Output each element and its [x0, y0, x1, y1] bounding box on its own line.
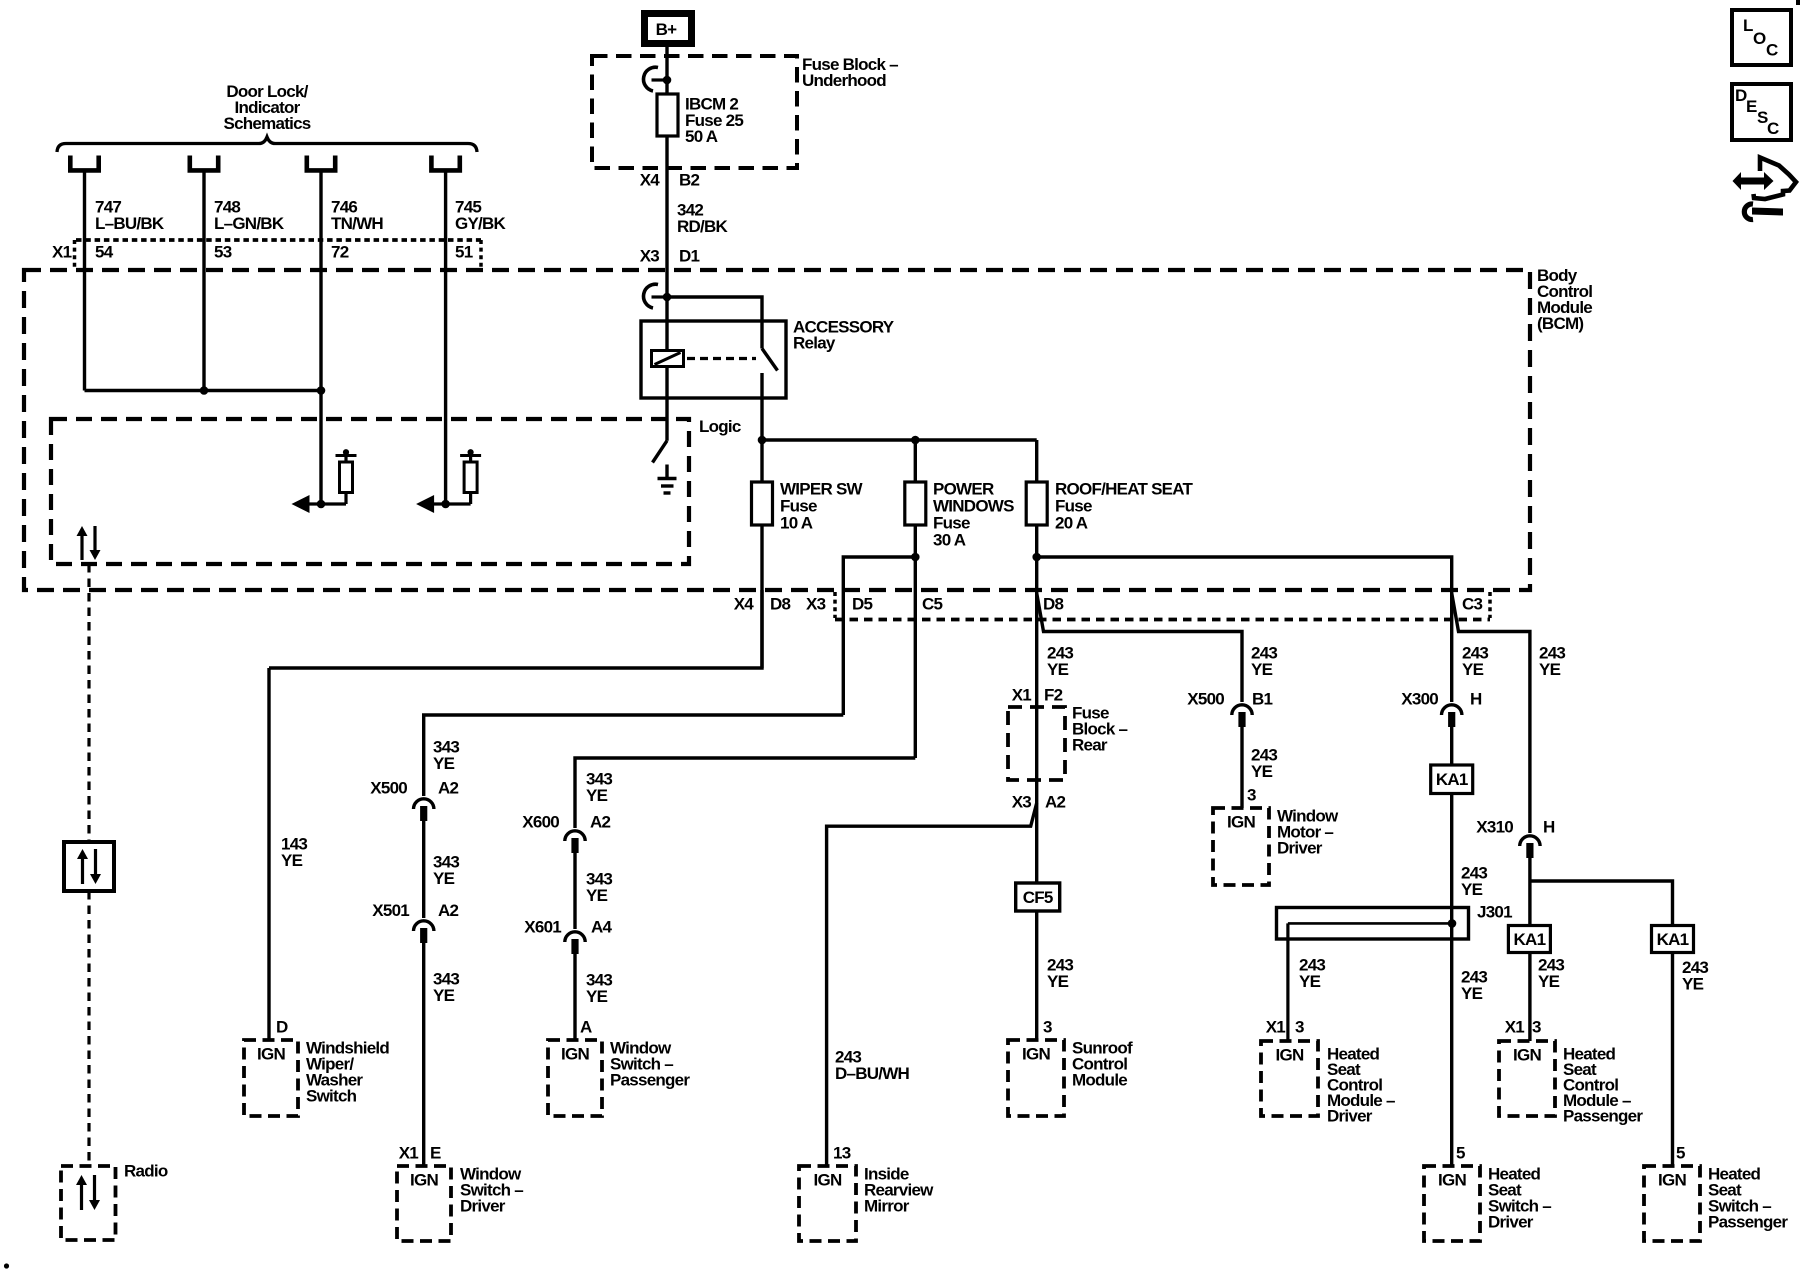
wire BCM pin D1 to relay coil [665, 270, 668, 351]
Heated Seat Switch - Passenger connector box [1644, 1166, 1700, 1241]
Sunroof Control Module connector box [1008, 1040, 1064, 1116]
wire KA1 to heated seat switch passenger [1671, 953, 1674, 1167]
LOC reference box [1732, 10, 1791, 65]
svg-text:YE: YE [1461, 880, 1483, 899]
wire 243 YE to window motor [1240, 727, 1243, 808]
connector X1 right bracket [479, 240, 483, 268]
svg-text:3: 3 [1532, 1018, 1541, 1037]
svg-text:B2: B2 [679, 171, 700, 190]
wire 747 L-BU/BK [83, 172, 86, 391]
svg-text:E: E [1746, 97, 1757, 116]
connector KA1 heated seat control passenger [1508, 926, 1550, 953]
Heated Seat Switch - Driver connector box [1424, 1166, 1480, 1241]
svg-text:X3: X3 [1012, 793, 1032, 812]
wire 746 TN/WH [319, 172, 322, 504]
svg-text:Radio: Radio [124, 1162, 168, 1181]
wire pin D8 to windshield wiper switch [269, 590, 762, 668]
Body Control Module (BCM) dashed box [24, 270, 1530, 590]
wire jog pin D8 to window motor driver [1037, 593, 1242, 702]
svg-text:13: 13 [833, 1144, 851, 1163]
svg-text:72: 72 [331, 243, 349, 262]
svg-text:B+: B+ [656, 20, 678, 39]
svg-text:E: E [430, 1144, 441, 1163]
svg-text:X500: X500 [370, 779, 407, 798]
svg-text:Logic: Logic [699, 417, 741, 436]
svg-text:IGN: IGN [257, 1045, 285, 1064]
svg-text:IGN: IGN [1276, 1046, 1304, 1065]
svg-text:X1: X1 [1012, 686, 1032, 705]
svg-text:C3: C3 [1462, 595, 1483, 614]
svg-text:X3: X3 [640, 247, 660, 266]
connector row dotted line [835, 618, 1490, 622]
wire relay coil to logic switch [665, 367, 668, 441]
door lock indicator 745 [441, 500, 450, 509]
Window Motor - Driver connector box [1213, 808, 1269, 885]
page corner mark top right [1796, 0, 1800, 5]
svg-text:YE: YE [1539, 660, 1561, 679]
svg-text:X1: X1 [399, 1144, 419, 1163]
svg-text:YE: YE [433, 869, 455, 888]
svg-text:KA1: KA1 [1514, 930, 1546, 949]
svg-text:YE: YE [1251, 762, 1273, 781]
svg-text:CF5: CF5 [1023, 888, 1053, 907]
svg-text:X1: X1 [52, 243, 72, 262]
svg-text:L: L [1743, 16, 1753, 35]
junction wire 54/53 to 72 [85, 389, 322, 392]
relay actuation dashed link [687, 357, 756, 360]
svg-text:Relay: Relay [793, 334, 836, 353]
svg-text:5: 5 [1456, 1144, 1465, 1163]
wire branch to pin C3 [1037, 557, 1452, 590]
svg-text:YE: YE [586, 786, 608, 805]
junction dot 72 [317, 386, 326, 395]
navigation arrow icon [1733, 172, 1774, 190]
svg-text:3: 3 [1247, 786, 1256, 805]
wire 745 GY/BK [444, 172, 447, 504]
wire 343 YE segment [422, 821, 425, 918]
wire fuse block rear to CF5 [1035, 707, 1038, 883]
svg-text:IGN: IGN [1658, 1171, 1686, 1190]
svg-text:RD/BK: RD/BK [677, 217, 729, 236]
svg-text:TN/WH: TN/WH [331, 214, 383, 233]
wire 342 RD/BK fuse to BCM pin D1 [665, 136, 668, 270]
svg-text:Rear: Rear [1072, 736, 1108, 755]
wire J301 to heated seat control module driver [1286, 923, 1289, 1041]
svg-text:F2: F2 [1044, 686, 1063, 705]
svg-text:Passenger: Passenger [1708, 1213, 1788, 1232]
connector KA1 heated seat driver feed [1431, 765, 1473, 794]
svg-text:Switch: Switch [306, 1087, 357, 1106]
svg-text:A: A [580, 1018, 592, 1037]
page corner mark bottom left [4, 1263, 9, 1268]
relay contact blade [762, 349, 778, 371]
svg-text:L–BU/BK: L–BU/BK [95, 214, 165, 233]
svg-text:IGN: IGN [1438, 1171, 1466, 1190]
svg-text:IGN: IGN [1513, 1046, 1541, 1065]
svg-text:YE: YE [1682, 975, 1704, 994]
svg-text:C: C [1766, 41, 1778, 60]
svg-text:Mirror: Mirror [864, 1197, 910, 1216]
svg-text:IGN: IGN [814, 1171, 842, 1190]
wire wiper fuse to pin D8 [760, 525, 763, 668]
plug symbol circuit 748 [190, 156, 218, 171]
svg-text:X1: X1 [1505, 1018, 1525, 1037]
svg-text:YE: YE [1047, 972, 1069, 991]
svg-text:J301: J301 [1477, 903, 1512, 922]
plug symbol circuit 745 [431, 156, 459, 171]
junction dot power windows fuse [911, 436, 920, 445]
junction dot C3 branch [1032, 553, 1041, 562]
junction dot D5 branch [911, 553, 920, 562]
svg-text:H: H [1470, 690, 1482, 709]
svg-text:30 A: 30 A [933, 531, 966, 550]
svg-text:A2: A2 [438, 779, 459, 798]
svg-text:YE: YE [1047, 660, 1069, 679]
fuse supply bus wire [762, 438, 1037, 441]
wire 343 YE segment [573, 853, 576, 929]
svg-text:10 A: 10 A [780, 514, 813, 533]
svg-text:Underhood: Underhood [802, 71, 886, 90]
junction dot at fuse feed [663, 76, 672, 85]
svg-text:(BCM): (BCM) [1537, 314, 1583, 333]
svg-text:Driver: Driver [1488, 1213, 1534, 1232]
WIPER SW Fuse 10 A [760, 440, 763, 482]
wire 343 YE to window switch driver [422, 943, 425, 1166]
svg-text:IGN: IGN [1022, 1045, 1050, 1064]
svg-text:GY/BK: GY/BK [455, 214, 507, 233]
Fuse Block - Underhood dashed box [592, 56, 797, 168]
splice pack J301 [1277, 908, 1469, 940]
svg-text:D8: D8 [1043, 595, 1064, 614]
Heated Seat Control Module - Driver connector box [1261, 1041, 1318, 1116]
svg-text:20 A: 20 A [1055, 514, 1088, 533]
svg-text:YE: YE [281, 851, 303, 870]
svg-text:D1: D1 [679, 247, 700, 266]
B+ power feed box [645, 14, 692, 44]
Window Switch - Driver connector box [397, 1166, 451, 1241]
junction dot in J301 [1448, 919, 1457, 928]
wire branch to inside rearview mirror [827, 803, 1037, 1166]
Window Switch - Passenger connector box [548, 1040, 602, 1116]
logic switch blade [653, 441, 668, 463]
POWER WINDOWS Fuse 30 A [914, 440, 917, 482]
wire to relay contact [667, 297, 762, 349]
svg-text:A2: A2 [590, 813, 611, 832]
svg-text:YE: YE [1538, 972, 1560, 991]
svg-text:X600: X600 [522, 813, 559, 832]
connector X1 left bracket [73, 240, 77, 268]
svg-text:Passenger: Passenger [610, 1071, 690, 1090]
ROOF/HEAT SEAT Fuse 20 A [1035, 440, 1038, 482]
svg-text:D8: D8 [770, 595, 791, 614]
wire CF5 to sunroof control module [1035, 911, 1038, 1040]
svg-text:Driver: Driver [1277, 839, 1323, 858]
wire power windows fuse to pin C5 [914, 525, 917, 758]
BCM Logic dashed box [51, 419, 689, 564]
ground [665, 465, 668, 479]
wire roof fuse down to pin D8 [1035, 525, 1038, 707]
plug symbol circuit 746 [307, 156, 335, 171]
connector KA1 heated seat switch passenger [1652, 926, 1694, 953]
dashed data wire to radio [87, 891, 90, 1166]
svg-text:IGN: IGN [410, 1171, 438, 1190]
plug symbol circuit 747 [70, 156, 98, 171]
svg-text:IGN: IGN [561, 1045, 589, 1064]
svg-text:50 A: 50 A [685, 127, 718, 146]
svg-text:KA1: KA1 [1436, 770, 1468, 789]
wire pin C5 to window switch passenger chain [575, 758, 915, 828]
svg-text:Passenger: Passenger [1563, 1107, 1643, 1126]
svg-text:X300: X300 [1401, 690, 1438, 709]
svg-text:A4: A4 [591, 918, 613, 937]
svg-text:B1: B1 [1252, 690, 1273, 709]
ACCESSORY Relay box [641, 321, 786, 398]
svg-text:O: O [1753, 29, 1766, 48]
wire jog pin C3 to X310 [1452, 593, 1530, 833]
connector X1 row dotted line [76, 238, 481, 242]
svg-text:Driver: Driver [460, 1197, 506, 1216]
svg-text:YE: YE [1251, 660, 1273, 679]
svg-text:X601: X601 [524, 918, 561, 937]
svg-text:3: 3 [1295, 1018, 1304, 1037]
svg-text:X4: X4 [640, 171, 661, 190]
Heated Seat Control Module - Passenger connector box [1499, 1041, 1555, 1116]
svg-text:C: C [1767, 119, 1779, 138]
svg-text:IGN: IGN [1227, 813, 1255, 832]
wire 748 L-GN/BK [202, 172, 205, 391]
svg-text:H: H [1543, 818, 1555, 837]
svg-text:YE: YE [586, 886, 608, 905]
svg-text:YE: YE [586, 987, 608, 1006]
svg-text:D–BU/WH: D–BU/WH [835, 1064, 910, 1083]
dashed data wire from logic [87, 564, 90, 842]
door lock indicator 746 [317, 500, 326, 509]
svg-text:YE: YE [433, 986, 455, 1005]
junction dot 53 [200, 386, 209, 395]
svg-text:51: 51 [455, 243, 473, 262]
wire KA1 through J301 to heated seat switch driver [1450, 794, 1453, 1167]
svg-text:Module: Module [1072, 1071, 1127, 1090]
svg-text:3: 3 [1043, 1018, 1052, 1037]
junction dot wiper fuse [758, 436, 767, 445]
wire 343 YE to window switch passenger [573, 954, 576, 1040]
wire pin D5 to window switch driver chain [424, 715, 844, 796]
Inside Rearview Mirror connector box [799, 1166, 856, 1241]
DESC reference box [1732, 84, 1791, 140]
svg-text:YE: YE [1299, 972, 1321, 991]
svg-text:L–GN/BK: L–GN/BK [214, 214, 285, 233]
Radio connector box [61, 1166, 116, 1240]
svg-text:54: 54 [95, 243, 114, 262]
svg-text:YE: YE [1462, 660, 1484, 679]
svg-text:X500: X500 [1187, 690, 1224, 709]
svg-text:X310: X310 [1476, 818, 1513, 837]
relay coil [652, 351, 684, 367]
serial data arrows in logic box [80, 534, 83, 560]
svg-text:YE: YE [1461, 984, 1483, 1003]
svg-text:53: 53 [214, 243, 232, 262]
svg-text:X3: X3 [806, 595, 826, 614]
svg-text:Schematics: Schematics [224, 114, 311, 133]
wire B+ to IBCM2 fuse [665, 46, 668, 94]
svg-text:A2: A2 [438, 901, 459, 920]
Fuse Block - Rear dashed box [1008, 707, 1065, 780]
svg-text:X4: X4 [734, 595, 755, 614]
wire branch to pin D5 [843, 557, 915, 715]
serial data link box [64, 842, 114, 891]
svg-text:KA1: KA1 [1657, 930, 1689, 949]
wire pin C3 to X300 [1450, 590, 1453, 702]
fusible link hook at fuse block feed [652, 78, 668, 81]
svg-text:5: 5 [1676, 1144, 1685, 1163]
svg-text:X1: X1 [1266, 1018, 1286, 1037]
wire relay contact output [760, 373, 763, 440]
wrench icon [1744, 204, 1753, 220]
fuse IBCM 2 Fuse 25 50 A [657, 94, 678, 136]
CF5 connector box [1016, 883, 1060, 911]
wire X300 to KA1 [1450, 727, 1453, 765]
svg-text:D5: D5 [852, 595, 873, 614]
Windshield Wiper/Washer Switch connector box [244, 1040, 298, 1116]
svg-text:Driver: Driver [1327, 1107, 1373, 1126]
wire KA1 to heated seat control module passenger [1528, 953, 1531, 1042]
wire X310 to KA1 passenger module [1528, 856, 1531, 926]
svg-text:D: D [276, 1018, 288, 1037]
junction dot relay feed [663, 293, 672, 302]
svg-text:A2: A2 [1045, 793, 1066, 812]
wire branch to heated seat switch passenger [1530, 881, 1673, 926]
svg-text:YE: YE [433, 754, 455, 773]
callout brace [57, 137, 477, 152]
fusible link hook at accessory relay feed [652, 295, 668, 298]
svg-text:C5: C5 [922, 595, 943, 614]
svg-text:X501: X501 [372, 901, 409, 920]
